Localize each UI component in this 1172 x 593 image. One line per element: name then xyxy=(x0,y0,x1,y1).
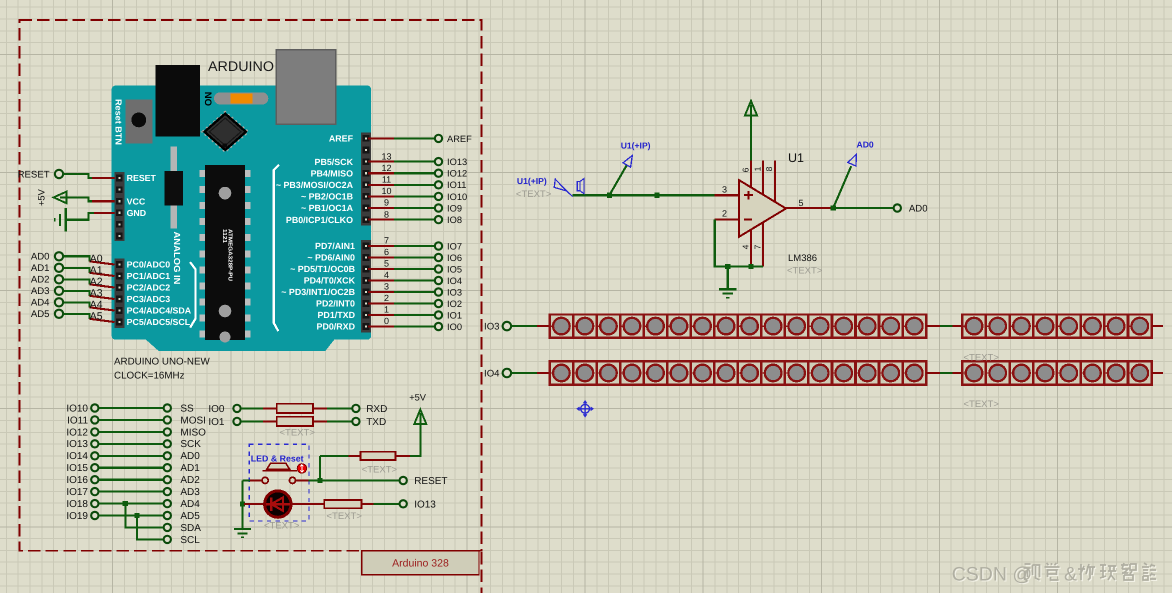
ATMEGA328P chip U1 legs xyxy=(199,170,205,177)
op-amp U1 triangle xyxy=(739,180,786,237)
terminal IO13 (right) xyxy=(399,499,408,508)
wire IO0 to resistor xyxy=(241,407,263,409)
terminal AD2 xyxy=(163,475,172,484)
svg-text:AREF: AREF xyxy=(447,134,472,144)
terminal IO18 xyxy=(90,499,99,508)
wire AD3 to A3 xyxy=(64,291,90,296)
svg-text:PC1/ADC1: PC1/ADC1 xyxy=(127,271,171,281)
svg-text:TXD: TXD xyxy=(366,417,386,428)
svg-text:5: 5 xyxy=(799,198,804,208)
junction output xyxy=(831,205,836,210)
wire RESET to header xyxy=(63,174,114,178)
input probe arrow U1(+IP) xyxy=(554,179,566,191)
svg-text:IO16: IO16 xyxy=(66,475,88,486)
terminal IO10 xyxy=(434,192,443,201)
svg-text:IO17: IO17 xyxy=(66,487,88,498)
wire LED to resistor xyxy=(291,503,324,505)
LED bargraph strip right (IO3) xyxy=(962,314,1151,337)
wire stub right (IO4) xyxy=(1152,372,1163,374)
terminal SCK xyxy=(163,439,172,448)
digital pin header J4 (PD) xyxy=(361,240,371,333)
wire left vertical xyxy=(241,480,243,527)
svg-text:3: 3 xyxy=(384,282,389,292)
svg-text:&: & xyxy=(1064,564,1077,586)
svg-text:IO12: IO12 xyxy=(66,427,88,438)
svg-text:<TEXT>: <TEXT> xyxy=(264,521,300,532)
svg-text:~ PB3/MOSI/OC2A: ~ PB3/MOSI/OC2A xyxy=(276,180,354,190)
wire IO15 to AD1 xyxy=(99,467,163,469)
junction gnd node xyxy=(725,264,730,269)
svg-text:U1: U1 xyxy=(788,151,804,165)
svg-text:<TEXT>: <TEXT> xyxy=(964,399,1000,410)
pin 1 stub xyxy=(762,160,764,196)
svg-text:IO8: IO8 xyxy=(447,215,462,225)
svg-text:<TEXT>: <TEXT> xyxy=(787,266,823,277)
wire pin to terminal IO5 xyxy=(368,268,394,270)
wire junction to SCL xyxy=(137,516,163,540)
digital pin header J3 (PB) xyxy=(361,133,371,226)
terminal IO13 xyxy=(434,157,443,166)
wire junction to SDA xyxy=(125,504,163,528)
wire +5V to VCC xyxy=(66,197,114,201)
svg-text:IO1: IO1 xyxy=(447,310,462,320)
wire pin to terminal IO10 xyxy=(368,195,394,197)
svg-text:4: 4 xyxy=(384,270,389,280)
svg-text:AD3: AD3 xyxy=(180,487,200,498)
svg-text:PB5/SCK: PB5/SCK xyxy=(315,157,354,167)
wire AD1 to A1 xyxy=(64,268,90,273)
svg-text:AD1: AD1 xyxy=(180,463,200,474)
svg-text:ON: ON xyxy=(203,92,214,106)
svg-text:PC5/ADC5/SCL: PC5/ADC5/SCL xyxy=(127,317,191,327)
speaker icon xyxy=(577,182,580,191)
terminal IO4 (strip) xyxy=(502,368,513,379)
terminal AD1 xyxy=(54,263,64,273)
svg-text:IO14: IO14 xyxy=(66,451,88,462)
terminal IO12 xyxy=(434,169,443,178)
svg-text:IO0: IO0 xyxy=(447,322,462,332)
LED bargraph strip left (IO3) xyxy=(550,314,926,337)
LED bargraph strip left (IO4) xyxy=(550,361,926,384)
wire stub right (IO3) xyxy=(1152,325,1163,327)
svg-text:3: 3 xyxy=(722,184,727,194)
svg-text:IO3: IO3 xyxy=(484,322,499,333)
svg-text:~ PD3/INT1/OC2B: ~ PD3/INT1/OC2B xyxy=(281,287,355,297)
terminal SDA xyxy=(163,523,172,532)
svg-text:IO10: IO10 xyxy=(447,192,467,202)
svg-text:6: 6 xyxy=(384,247,389,257)
wire pin to terminal IO2 xyxy=(368,302,394,304)
svg-text:PC0/ADC0: PC0/ADC0 xyxy=(127,260,171,270)
svg-text:MISO: MISO xyxy=(180,427,206,438)
svg-text:IO11: IO11 xyxy=(447,180,466,190)
wire AD2 to A2 xyxy=(64,279,90,284)
terminal TXD xyxy=(351,417,360,426)
terminal IO0 xyxy=(232,404,241,413)
terminal IO13 xyxy=(90,439,99,448)
svg-text:IO6: IO6 xyxy=(447,253,462,263)
svg-text:PB4/MISO: PB4/MISO xyxy=(311,168,354,178)
wire resistor to RXD xyxy=(314,407,327,409)
wire pin to terminal IO13 xyxy=(368,161,394,163)
terminal AD0 (right) xyxy=(893,203,902,212)
terminal IO9 xyxy=(434,203,443,212)
svg-text:A3: A3 xyxy=(90,287,103,299)
svg-text:CLOCK=16MHz: CLOCK=16MHz xyxy=(114,371,185,382)
junction LED row xyxy=(240,502,245,507)
junction IO19/SCL xyxy=(134,513,139,518)
terminal IO5 xyxy=(434,264,443,273)
wire IO4 to strip xyxy=(511,372,536,374)
wire IO16 to AD2 xyxy=(99,479,163,481)
terminal IO10 xyxy=(90,403,99,412)
svg-text:ANALOG IN: ANALOG IN xyxy=(172,232,182,285)
svg-text:IO0: IO0 xyxy=(208,404,225,415)
terminal AD0 xyxy=(163,451,172,460)
svg-text:ATMEGA328P-PU: ATMEGA328P-PU xyxy=(227,229,234,281)
terminal SCL xyxy=(163,535,172,544)
USB connector xyxy=(276,50,336,124)
reset button xyxy=(125,99,152,143)
svg-text:RESET: RESET xyxy=(127,173,157,183)
wire pin to terminal IO11 xyxy=(368,184,394,186)
resistor R (reset pull-up) xyxy=(361,452,396,460)
terminal IO1 xyxy=(434,310,443,319)
subcircuit box LED & Reset xyxy=(249,444,309,521)
terminal IO2 xyxy=(434,299,443,308)
dashed sheet border xyxy=(20,20,482,551)
wire IO3 to strip xyxy=(511,325,536,327)
wire pin to terminal IO4 xyxy=(368,279,394,281)
svg-text:A0: A0 xyxy=(90,253,103,265)
wire between strips (IO4) xyxy=(926,372,940,374)
svg-text:ARDUINO UNO-NEW: ARDUINO UNO-NEW xyxy=(114,357,211,368)
svg-text:~ PD5/T1/OC0B: ~ PD5/T1/OC0B xyxy=(290,264,355,274)
svg-text:SS: SS xyxy=(180,403,194,414)
terminal IO1 xyxy=(232,417,241,426)
svg-text:1: 1 xyxy=(384,305,389,315)
terminal IO16 xyxy=(90,475,99,484)
svg-text:A5: A5 xyxy=(90,310,103,322)
svg-text:2: 2 xyxy=(722,208,727,218)
resistor R (LED series) xyxy=(324,500,361,508)
terminal MOSI xyxy=(163,415,172,424)
svg-text:PD0/RXD: PD0/RXD xyxy=(317,322,356,332)
svg-text:+5V: +5V xyxy=(37,188,47,206)
wire IO12 to MISO xyxy=(99,431,163,433)
wire resistor to +5V xyxy=(396,455,410,457)
svg-text:GND: GND xyxy=(127,208,147,218)
svg-text:IO19: IO19 xyxy=(66,511,88,522)
svg-text:AD2: AD2 xyxy=(31,275,50,286)
terminal IO3 (strip) xyxy=(502,321,513,332)
svg-text:IO1: IO1 xyxy=(208,417,225,428)
svg-text:PD7/AIN1: PD7/AIN1 xyxy=(315,241,355,251)
terminal IO6 xyxy=(434,253,443,262)
svg-text:SDA: SDA xyxy=(180,523,201,534)
white bracket digital group xyxy=(274,165,279,331)
wire junction to LED anode xyxy=(244,503,264,505)
terminal AD5 xyxy=(163,511,172,520)
svg-text:ARDUINO: ARDUINO xyxy=(208,58,274,74)
wire IO13 to SCK xyxy=(99,443,163,445)
feedback wire pin2 xyxy=(715,220,763,267)
svg-text:IO12: IO12 xyxy=(447,169,467,179)
terminal AD3 xyxy=(54,286,64,296)
wire IO14 to AD0 xyxy=(99,455,163,457)
terminal IO12 xyxy=(90,427,99,436)
svg-text:10: 10 xyxy=(381,186,391,196)
wire output to AD0 xyxy=(833,207,893,209)
power pin header J1 xyxy=(114,172,124,241)
svg-text:5: 5 xyxy=(384,259,389,269)
wire junction up to resistor xyxy=(319,456,321,481)
svg-text:IO13: IO13 xyxy=(447,157,467,167)
svg-text:IO13: IO13 xyxy=(66,439,88,450)
svg-text:SCL: SCL xyxy=(180,535,200,546)
push button K1 xyxy=(267,463,290,469)
svg-text:PC3/ADC3: PC3/ADC3 xyxy=(127,294,171,304)
wire resistor to IO13 terminal xyxy=(362,503,374,505)
svg-text:+5V: +5V xyxy=(409,393,427,403)
svg-text:LM386: LM386 xyxy=(788,253,817,264)
wire button left leg xyxy=(249,479,262,481)
terminal AD3 xyxy=(163,487,172,496)
pin 4 stub xyxy=(750,229,752,267)
svg-text:A4: A4 xyxy=(90,299,103,311)
wire pin to terminal IO8 xyxy=(368,219,394,221)
svg-text:IO11: IO11 xyxy=(67,415,88,426)
junction input 1 xyxy=(607,193,612,198)
DC power jack xyxy=(156,65,201,137)
voltage probe U1(+IP) top xyxy=(609,166,626,196)
junction reset node xyxy=(317,478,322,483)
svg-text:7: 7 xyxy=(752,244,762,249)
wire pin to terminal IO9 xyxy=(368,207,394,209)
crystal oscillator xyxy=(171,146,177,228)
svg-text:IO7: IO7 xyxy=(447,241,462,251)
svg-text:9: 9 xyxy=(384,198,389,208)
origin marker xyxy=(577,401,593,417)
svg-text:<TEXT>: <TEXT> xyxy=(280,427,316,438)
Arduino 328 sub-sheet label tab xyxy=(362,551,479,575)
pin 6 stub + power xyxy=(750,114,752,160)
svg-text:AD4: AD4 xyxy=(31,298,50,309)
svg-text:PC2/ADC2: PC2/ADC2 xyxy=(127,283,171,293)
svg-text:IO9: IO9 xyxy=(447,203,462,213)
terminal RXD xyxy=(351,404,360,413)
terminal MISO xyxy=(163,427,172,436)
svg-text:<TEXT>: <TEXT> xyxy=(362,464,398,475)
svg-text:Arduino 328: Arduino 328 xyxy=(392,558,449,570)
svg-text:6: 6 xyxy=(741,167,751,172)
svg-text:8: 8 xyxy=(764,166,774,171)
svg-text:~ PB2/OC1B: ~ PB2/OC1B xyxy=(301,192,353,202)
analog pin header J2 xyxy=(114,259,124,329)
svg-text:IO4: IO4 xyxy=(447,276,462,286)
power +5V (left) xyxy=(54,192,67,204)
svg-text:SCK: SCK xyxy=(180,439,201,450)
svg-text:AD0: AD0 xyxy=(180,451,200,462)
terminal IO8 xyxy=(434,215,443,224)
wire button right to RESET terminal xyxy=(296,479,309,481)
terminal AD4 xyxy=(163,499,172,508)
svg-text:PC4/ADC4/SDA: PC4/ADC4/SDA xyxy=(127,306,192,316)
svg-text:<TEXT>: <TEXT> xyxy=(516,189,552,200)
wire between strips (IO3) xyxy=(926,325,940,327)
wire pin to terminal IO12 xyxy=(368,172,394,174)
wire IO17 to AD3 xyxy=(99,491,163,493)
ON LED indicator xyxy=(214,92,268,104)
wire pin to terminal IO0 xyxy=(368,325,394,327)
junction IO18/SDA xyxy=(123,501,128,506)
resistor R (IO0-RXD) xyxy=(277,404,313,413)
terminal IO3 xyxy=(434,287,443,296)
svg-text:VCC: VCC xyxy=(127,196,146,206)
terminal IO14 xyxy=(90,451,99,460)
terminal SS xyxy=(163,403,172,412)
wire pin to terminal IO3 xyxy=(368,291,394,293)
svg-text:IO4: IO4 xyxy=(484,368,500,379)
svg-text:IO5: IO5 xyxy=(447,264,462,274)
terminal IO15 xyxy=(90,463,99,472)
svg-text:AREF: AREF xyxy=(329,134,354,144)
Arduino UNO board U1 (module body) xyxy=(112,86,372,352)
svg-text:IO13: IO13 xyxy=(414,500,436,511)
svg-text:AD0: AD0 xyxy=(857,140,874,150)
svg-text:PD1/TXD: PD1/TXD xyxy=(318,310,356,320)
svg-text:8: 8 xyxy=(384,209,389,219)
svg-text:AD4: AD4 xyxy=(180,499,200,510)
ATMEGA328P chip body xyxy=(205,165,245,340)
svg-text:RESET: RESET xyxy=(18,169,50,180)
wire pin to terminal IO6 xyxy=(368,256,394,258)
svg-text:PD4/T0/XCK: PD4/T0/XCK xyxy=(304,276,356,286)
svg-text:IO10: IO10 xyxy=(66,403,88,414)
svg-text:~ PB1/OC1A: ~ PB1/OC1A xyxy=(301,203,354,213)
svg-text:12: 12 xyxy=(381,163,391,173)
power +5V (subcircuit) xyxy=(414,410,426,425)
svg-text:13: 13 xyxy=(381,151,391,161)
ground (left, rotated) xyxy=(65,208,67,232)
terminal AD5 xyxy=(54,309,64,319)
svg-text:1: 1 xyxy=(752,166,762,171)
LED bargraph strip right (IO4) xyxy=(962,361,1151,384)
svg-text:IO15: IO15 xyxy=(66,463,88,474)
wire IO19 to AD5 xyxy=(99,514,163,516)
resistor R (IO1-TXD) xyxy=(277,417,313,426)
wire pin to terminal IO7 xyxy=(368,245,394,247)
svg-text:0: 0 xyxy=(384,316,389,326)
svg-text:<TEXT>: <TEXT> xyxy=(964,352,1000,363)
terminal IO11 xyxy=(90,415,99,424)
svg-text:AD5: AD5 xyxy=(31,309,50,320)
svg-text:AD0: AD0 xyxy=(909,204,928,215)
terminal RESET (left) xyxy=(54,169,64,179)
svg-text:4: 4 xyxy=(741,244,751,249)
terminal AD4 xyxy=(54,297,64,307)
svg-text:IO18: IO18 xyxy=(66,499,88,510)
terminal AD2 xyxy=(54,274,64,284)
voltage regulator (diamond) xyxy=(203,112,248,152)
svg-text:IO3: IO3 xyxy=(447,287,462,297)
svg-text:Reset BTN: Reset BTN xyxy=(113,99,123,145)
svg-text:AD1: AD1 xyxy=(31,263,50,274)
svg-text:RESET: RESET xyxy=(414,476,447,487)
svg-text:A2: A2 xyxy=(90,276,103,288)
wire input net U1(+IP) xyxy=(573,194,715,196)
button actuator marker xyxy=(297,464,306,473)
terminal IO11 xyxy=(434,180,443,189)
terminal RESET (right) xyxy=(399,476,408,485)
voltage probe AD0 xyxy=(833,166,851,208)
terminal IO0 xyxy=(434,322,443,331)
svg-text:MOSI: MOSI xyxy=(180,415,206,426)
wire GND pin xyxy=(92,212,114,214)
svg-text:7: 7 xyxy=(384,236,389,246)
pin 3 wire xyxy=(715,194,739,196)
ground (subcircuit) xyxy=(241,527,243,529)
ground (op-amp) xyxy=(719,288,736,290)
terminal AD0 xyxy=(54,251,64,261)
svg-text:PB0/ICP1/CLKO: PB0/ICP1/CLKO xyxy=(286,215,353,225)
svg-text:2: 2 xyxy=(384,293,389,303)
wire IO10 to SS xyxy=(99,407,163,409)
svg-text:AD3: AD3 xyxy=(31,286,50,297)
power +5V op-amp xyxy=(745,101,757,116)
LED D1 xyxy=(265,491,291,517)
svg-text:~ PD6/AIN0: ~ PD6/AIN0 xyxy=(307,253,355,263)
terminal IO4 xyxy=(434,276,443,285)
wire AD4 to A4 xyxy=(64,302,90,307)
svg-text:LED & Reset: LED & Reset xyxy=(251,453,304,463)
svg-text:CSDN @: CSDN @ xyxy=(952,564,1032,586)
pin 8 stub xyxy=(774,160,776,204)
wire AD0 to A0 xyxy=(64,256,90,261)
svg-text:A1: A1 xyxy=(90,264,103,276)
terminal IO19 xyxy=(90,511,99,520)
wire IO18 to AD4 xyxy=(99,503,163,505)
terminal IO7 xyxy=(434,241,443,250)
svg-text:IO2: IO2 xyxy=(447,299,462,309)
junction pin4 node xyxy=(748,264,753,269)
terminal IO17 xyxy=(90,487,99,496)
terminal AD1 xyxy=(163,463,172,472)
svg-text:AD2: AD2 xyxy=(180,475,200,486)
wire AD5 to A5 xyxy=(64,314,90,319)
pin 5 output wire xyxy=(786,207,833,209)
pin 7 stub xyxy=(762,221,764,266)
wire pin to terminal AREF xyxy=(368,137,394,139)
svg-text:AD5: AD5 xyxy=(180,511,200,522)
svg-text:11: 11 xyxy=(382,175,391,185)
svg-text:<TEXT>: <TEXT> xyxy=(327,511,363,522)
wire IO11 to MOSI xyxy=(99,419,163,421)
junction input 2 xyxy=(655,193,660,198)
wire resistor to TXD xyxy=(314,420,327,422)
svg-text:RXD: RXD xyxy=(366,404,387,415)
svg-text:PD2/INT0: PD2/INT0 xyxy=(316,299,355,309)
white bracket analog group xyxy=(190,262,195,328)
svg-text:AD0: AD0 xyxy=(31,252,50,263)
wire IO1 to resistor xyxy=(241,420,263,422)
wire to ground xyxy=(727,267,729,290)
svg-text:U1(+IP): U1(+IP) xyxy=(517,176,547,186)
wire pin to terminal IO1 xyxy=(368,314,394,316)
terminal AREF xyxy=(434,134,443,143)
svg-text:U1(+IP): U1(+IP) xyxy=(621,141,651,151)
pin 2 wire xyxy=(715,218,739,220)
